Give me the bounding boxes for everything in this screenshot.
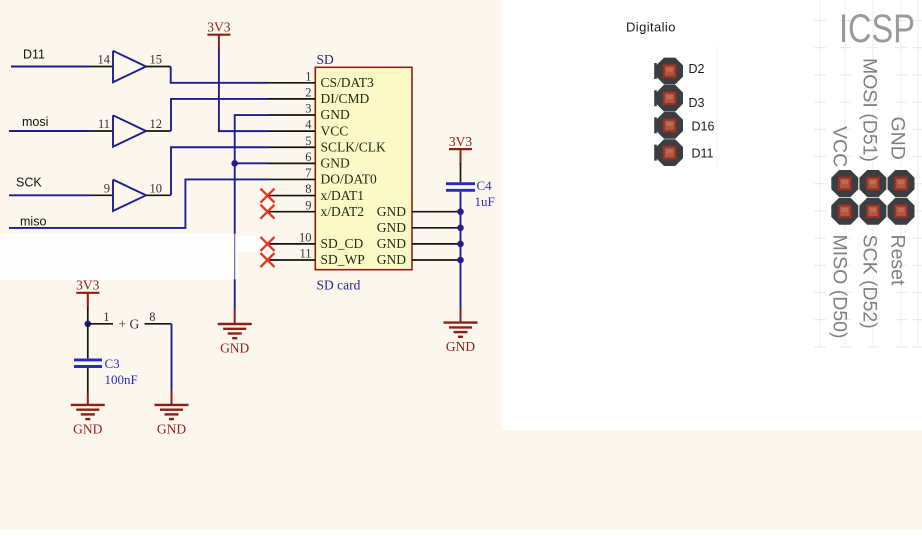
svg-text:MISO (D50): MISO (D50)	[829, 235, 851, 339]
svg-text:3: 3	[305, 102, 311, 116]
svg-text:ICSP: ICSP	[839, 7, 915, 51]
junction pin6/pin3 GND net	[231, 160, 238, 167]
pad D3	[654, 85, 683, 112]
svg-text:9: 9	[104, 181, 110, 195]
wire GND pin 6 branch	[235, 162, 268, 164]
pin 5 SCLK/CLK	[268, 134, 387, 155]
svg-text:8: 8	[305, 182, 311, 196]
wire miso to DO/DAT0 pin 7	[9, 179, 268, 227]
svg-text:3V3: 3V3	[449, 134, 472, 149]
svg-text:3V3: 3V3	[76, 278, 99, 293]
svg-text:Digitalio: Digitalio	[626, 20, 676, 35]
svg-text:SCK: SCK	[16, 176, 42, 190]
svg-text:1: 1	[305, 69, 311, 83]
no-connect X	[261, 205, 275, 219]
wire 3V3 down	[87, 308, 89, 325]
svg-text:GND: GND	[73, 421, 102, 436]
svg-text:1: 1	[103, 310, 109, 324]
svg-text:+ G: + G	[119, 316, 140, 331]
pad ICSP	[859, 198, 886, 225]
svg-text:VCC: VCC	[321, 123, 349, 138]
pad D11	[654, 139, 683, 166]
svg-text:GND: GND	[377, 236, 406, 251]
svg-text:10: 10	[150, 181, 163, 195]
pin 4 VCC	[268, 118, 349, 139]
svg-text:SD card: SD card	[317, 278, 361, 293]
svg-text:mosi: mosi	[22, 115, 48, 129]
pin GND (right)	[377, 220, 461, 235]
svg-text:100nF: 100nF	[105, 372, 138, 387]
pin 2 DI/CMD	[268, 86, 370, 107]
pin 6 GND	[268, 150, 350, 171]
ground GND (left, lower left)	[87, 394, 89, 405]
svg-text:10: 10	[299, 231, 312, 245]
svg-text:2: 2	[305, 86, 311, 100]
wire buffer A output to CS/DAT3 pin 1	[171, 67, 268, 83]
svg-text:x/DAT1: x/DAT1	[321, 188, 365, 203]
junction GND pin	[457, 208, 464, 215]
pin GND (right)	[377, 252, 461, 267]
wire SCK input	[9, 194, 90, 196]
svg-text:12: 12	[150, 117, 163, 131]
svg-text:GND: GND	[377, 252, 406, 267]
ground GND (right, lower left)	[171, 390, 173, 405]
wire C3 to ground	[87, 368, 89, 394]
svg-text:GND: GND	[220, 341, 249, 356]
svg-text:D11: D11	[692, 146, 714, 160]
svg-text:MOSI (D51): MOSI (D51)	[859, 58, 881, 162]
pin 8 (+G component)	[145, 310, 172, 324]
junction GND pin	[457, 224, 464, 231]
no-connect X	[261, 237, 275, 251]
power 3V3 (lower left)	[76, 278, 99, 309]
buffer C pins 9/10 (SCK)	[90, 180, 171, 211]
svg-text:GND: GND	[157, 421, 186, 436]
pad D16	[654, 112, 683, 139]
pin 8 x/DAT1	[268, 182, 365, 203]
pin 7 DO/DAT0	[268, 166, 377, 187]
wire GND pin 3 to ground	[235, 115, 268, 308]
svg-text:SD: SD	[317, 52, 335, 67]
pad ICSP	[888, 198, 915, 225]
pad ICSP	[831, 198, 858, 225]
pin GND (right)	[377, 236, 461, 251]
IC SD card box	[315, 67, 412, 269]
svg-text:1uF: 1uF	[475, 194, 495, 209]
svg-text:11: 11	[299, 247, 311, 261]
svg-text:D11: D11	[23, 48, 45, 62]
svg-text:DI/CMD: DI/CMD	[321, 91, 370, 106]
svg-text:GND: GND	[887, 117, 909, 160]
power 3V3 top	[207, 20, 230, 51]
svg-text:11: 11	[98, 117, 110, 131]
wire buffer C output to SCLK/CLK pin 5	[171, 147, 268, 195]
pad ICSP	[888, 170, 915, 197]
capacitor C3	[74, 360, 102, 367]
svg-text:miso: miso	[20, 215, 46, 229]
pin GND (right)	[377, 204, 461, 219]
no-connect X	[261, 189, 275, 203]
svg-text:14: 14	[98, 53, 111, 67]
svg-text:4: 4	[305, 118, 312, 132]
pin 1 (+G component)	[88, 310, 113, 324]
svg-text:VCC: VCC	[829, 126, 851, 167]
pad ICSP	[831, 170, 858, 197]
svg-text:9: 9	[305, 198, 311, 212]
pin 11 SD_WP	[268, 247, 365, 268]
pad D2	[654, 58, 683, 85]
pin 1 CS/DAT3	[268, 69, 375, 90]
wire D11 input	[11, 66, 90, 68]
wire 3V3 to VCC pin 4	[219, 50, 268, 132]
svg-text:5: 5	[305, 134, 311, 148]
buffer B pins 11/12 (mosi)	[90, 115, 171, 146]
junction node	[85, 321, 92, 328]
no-connect X	[261, 253, 275, 267]
svg-text:8: 8	[149, 310, 155, 324]
wire pin8 to ground	[171, 324, 173, 391]
svg-text:GND: GND	[321, 156, 350, 171]
svg-text:D2: D2	[689, 62, 705, 76]
svg-text:SCLK/CLK: SCLK/CLK	[321, 139, 387, 154]
capacitor C4	[446, 184, 475, 191]
svg-text:GND: GND	[377, 204, 406, 219]
svg-text:7: 7	[305, 166, 311, 180]
svg-text:CS/DAT3: CS/DAT3	[321, 75, 375, 90]
svg-text:SCK (D52): SCK (D52)	[859, 235, 881, 329]
pin 9 x/DAT2	[268, 198, 365, 219]
svg-text:D3: D3	[689, 96, 705, 110]
junction GND pin	[457, 257, 464, 264]
svg-text:GND: GND	[377, 220, 406, 235]
junction GND pin	[457, 241, 464, 248]
svg-text:DO/DAT0: DO/DAT0	[321, 172, 377, 187]
svg-text:C3: C3	[105, 356, 120, 371]
wire 3V3 node to C3	[87, 324, 89, 359]
svg-text:SD_WP: SD_WP	[321, 252, 365, 267]
wire 3V3 to C4	[460, 164, 462, 183]
svg-text:C4: C4	[477, 178, 493, 193]
svg-text:SD_CD: SD_CD	[321, 236, 364, 251]
svg-text:GND: GND	[446, 339, 475, 354]
svg-text:x/DAT2: x/DAT2	[321, 204, 365, 219]
pin 10 SD_CD	[268, 231, 364, 252]
svg-text:3V3: 3V3	[207, 20, 230, 35]
wire C4 to ground	[460, 192, 462, 309]
erase patch	[0, 234, 238, 280]
svg-text:GND: GND	[321, 107, 350, 122]
svg-text:Reset: Reset	[887, 235, 909, 287]
pin 3 GND	[268, 102, 350, 123]
buffer A pins 14/15 (D11)	[90, 51, 171, 82]
svg-text:D16: D16	[692, 119, 715, 133]
svg-text:15: 15	[150, 53, 163, 67]
power 3V3 (C4)	[449, 134, 472, 165]
wire mosi input	[9, 130, 90, 132]
wire buffer B output to DI/CMD pin 2	[171, 99, 268, 131]
ground GND (C4)	[460, 309, 462, 323]
svg-text:6: 6	[305, 150, 311, 164]
ground GND below SD	[234, 309, 236, 325]
pad ICSP	[859, 170, 886, 197]
